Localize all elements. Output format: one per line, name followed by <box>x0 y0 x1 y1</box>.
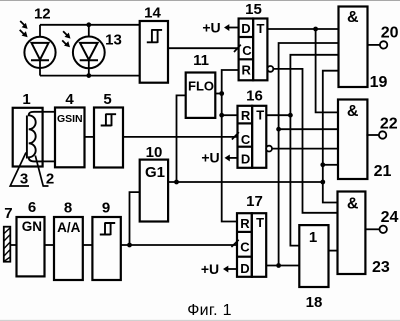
svg-text:12: 12 <box>34 5 51 22</box>
svg-text:18: 18 <box>306 294 323 311</box>
svg-text:14: 14 <box>144 4 161 21</box>
svg-text:+U: +U <box>201 150 219 166</box>
svg-text:G1: G1 <box>145 164 165 181</box>
svg-text:6: 6 <box>28 199 36 216</box>
svg-text:+U: +U <box>202 19 220 35</box>
svg-text:24: 24 <box>381 209 399 226</box>
svg-text:D: D <box>241 152 250 167</box>
svg-text:R: R <box>241 108 251 123</box>
svg-text:20: 20 <box>381 25 399 42</box>
svg-text:3: 3 <box>20 171 28 188</box>
svg-text:+U: +U <box>201 261 219 277</box>
svg-text:A/A: A/A <box>57 220 81 235</box>
svg-text:R: R <box>242 62 252 77</box>
svg-text:10: 10 <box>146 144 163 161</box>
svg-text:19: 19 <box>370 74 388 91</box>
svg-text:22: 22 <box>380 116 398 133</box>
svg-text:17: 17 <box>246 193 263 210</box>
svg-text:Фиг. 1: Фиг. 1 <box>187 302 232 319</box>
svg-text:D: D <box>241 21 250 36</box>
svg-text:1: 1 <box>309 229 317 246</box>
svg-text:4: 4 <box>65 91 74 108</box>
svg-text:23: 23 <box>372 259 390 276</box>
svg-text:GSIN: GSIN <box>57 113 83 125</box>
svg-text:T: T <box>256 108 264 123</box>
svg-text:5: 5 <box>103 91 111 108</box>
svg-text:C: C <box>241 132 251 147</box>
svg-text:&: & <box>347 103 359 120</box>
svg-text:11: 11 <box>193 52 209 69</box>
svg-text:16: 16 <box>246 87 263 104</box>
svg-text:T: T <box>257 21 265 36</box>
svg-text:R: R <box>240 216 250 231</box>
svg-text:C: C <box>240 239 250 254</box>
svg-text:8: 8 <box>64 200 72 217</box>
svg-text:T: T <box>256 215 264 230</box>
svg-text:&: & <box>347 196 359 213</box>
svg-text:FLO: FLO <box>188 78 214 93</box>
svg-text:2: 2 <box>46 171 54 188</box>
svg-text:13: 13 <box>105 32 122 49</box>
svg-text:21: 21 <box>374 163 392 180</box>
svg-text:C: C <box>242 43 252 58</box>
svg-text:D: D <box>240 261 249 276</box>
svg-text:9: 9 <box>102 200 110 217</box>
svg-text:7: 7 <box>4 205 12 222</box>
svg-text:&: & <box>347 9 359 26</box>
svg-text:15: 15 <box>245 1 262 18</box>
svg-text:GN: GN <box>22 219 42 234</box>
svg-text:1: 1 <box>22 91 30 108</box>
